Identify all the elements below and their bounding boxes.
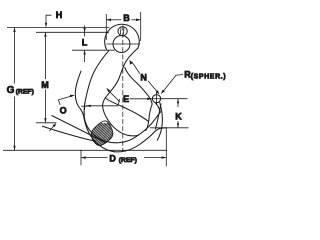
- svg-text:(REF): (REF): [16, 88, 34, 95]
- svg-text:E: E: [123, 94, 129, 104]
- dimension G line: [14, 28, 16, 84]
- jaw outer and bowl outer arc: [75, 71, 166, 152]
- dimension E stepped line: [86, 99, 120, 106]
- far shank branch to point: [125, 68, 152, 105]
- dimension D extension line right: [165, 128, 167, 166]
- svg-text:G: G: [7, 85, 15, 96]
- svg-text:(SPHER.): (SPHER.): [191, 74, 227, 81]
- dimension K bottom arrow: [177, 121, 179, 128]
- rim near top edge: [106, 99, 149, 122]
- eye hole: [113, 36, 130, 53]
- point inner edge: [146, 104, 152, 131]
- eye vertical centerline: [122, 26, 124, 153]
- leader arrow to throat edge: [109, 91, 120, 102]
- dimension B extension line right: [140, 12, 142, 41]
- extension line eye-bottom (M/L reference, y=32.3): [36, 31, 109, 33]
- shank left edge into far rim left: [84, 51, 109, 126]
- svg-text:H: H: [56, 10, 63, 20]
- eye features: [113, 27, 130, 53]
- node tip sphere center mark: [156, 93, 158, 105]
- dimension D line: [81, 157, 108, 159]
- point far edge crossing: [156, 104, 161, 129]
- tip sphere: [152, 95, 160, 103]
- dimension B extension line left: [105, 14, 107, 40]
- dimension D extension line left: [80, 150, 82, 166]
- hook body outlines: [43, 24, 167, 152]
- K bottom extension line y=127.8: [150, 127, 189, 129]
- dimension M line: [44, 32, 46, 79]
- svg-text:(REF): (REF): [119, 157, 137, 164]
- svg-text:O: O: [60, 106, 67, 116]
- leader R: [163, 75, 183, 92]
- svg-text:D: D: [109, 154, 116, 164]
- saddle extension line y=122.8: [36, 122, 57, 124]
- dimension L top arrow: [84, 26, 86, 37]
- dimension B line: [106, 19, 121, 21]
- far rim inner arc: [87, 103, 160, 142]
- svg-text:B: B: [123, 13, 130, 23]
- point outer edge: [157, 103, 162, 140]
- dimension H leader: [46, 15, 52, 26]
- bar section hatch ticks: [119, 28, 122, 35]
- eye horizontal centerline: [107, 43, 141, 45]
- K top extension line y=98.7: [162, 98, 188, 100]
- leader O: [58, 96, 71, 105]
- far rim left diagonal: [52, 116, 106, 143]
- far rim lower-left diagonal: [43, 126, 96, 141]
- extension line top (G/H reference, y=27.5): [7, 27, 110, 29]
- eye boss outer outline: [105, 24, 140, 49]
- extension line eye-hole-bottom (L reference, y=50.2): [72, 49, 115, 51]
- shank right edge into inner throat: [103, 49, 139, 136]
- dimension K top arrow: [177, 99, 179, 107]
- eye top bar section circle: [118, 27, 127, 36]
- bottom reference line y=150.3: [3, 149, 167, 151]
- svg-text:K: K: [175, 111, 182, 121]
- section cross-hatch: [80, 121, 130, 152]
- section outline: [91, 121, 113, 146]
- svg-text:N: N: [140, 73, 147, 83]
- leader N upper: [132, 62, 140, 74]
- section direction arrow near saddle: [50, 125, 56, 132]
- svg-text:M: M: [41, 80, 49, 90]
- leader N lower: [148, 81, 157, 92]
- dimension L bottom arrow: [84, 50, 86, 62]
- centerlines: [107, 26, 141, 153]
- svg-text:L: L: [82, 37, 88, 47]
- node saddle center mark: [84, 103, 86, 110]
